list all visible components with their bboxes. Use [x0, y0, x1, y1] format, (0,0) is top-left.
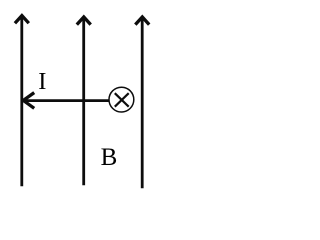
svg-text:I: I: [38, 68, 46, 95]
svg-text:B: B: [101, 144, 118, 171]
